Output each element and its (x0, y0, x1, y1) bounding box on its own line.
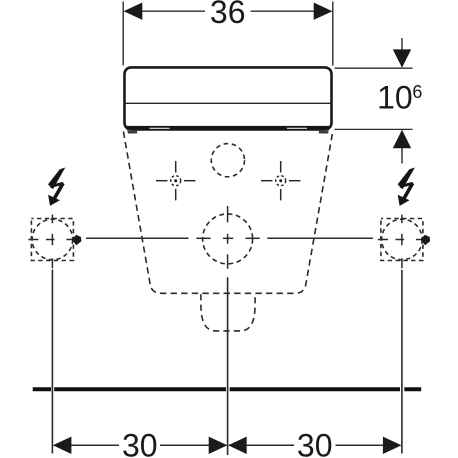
actuator plate right foot tab (319, 131, 329, 134)
horizontal centerline left long segment (86, 237, 189, 239)
horizontal centerline right long segment (267, 237, 373, 239)
dimension 30: center left-pointing arrowhead (228, 437, 247, 454)
small dashed circle (water supply) (211, 144, 244, 177)
dimension 30: center right-pointing arrowhead (209, 437, 228, 454)
svg-text:36: 36 (210, 0, 246, 30)
WC pan dashed outline (123, 132, 332, 294)
dimension 36: right extension line (332, 2, 334, 66)
dimension 36: right arrowhead (314, 3, 333, 20)
cistern actuator plate outer body (125, 67, 332, 129)
electrical box symbol right: dark mark at right edge (421, 235, 431, 245)
fixing point crosshair right (261, 161, 300, 200)
electrical box symbol left: crosshair ticks (28, 215, 81, 269)
actuator plate band right slot (287, 128, 307, 129)
dimension 30: far left arrowhead (53, 437, 72, 454)
dimension 36: left extension line (122, 2, 124, 66)
actuator plate left foot tab (128, 131, 138, 134)
fixing point crosshair left (156, 161, 195, 200)
WC outlet tube dashed outline (201, 294, 255, 331)
large circle centerline ticks (196, 206, 259, 269)
dimension 30 right: dimension line (229, 444, 294, 446)
actuator plate band left slot (150, 128, 170, 129)
right vertical extension line to floor (401, 270, 403, 454)
left vertical extension line to floor (51, 270, 53, 454)
electrical box symbol left: dashed square (31, 219, 73, 261)
actuator plate divider line (126, 102, 332, 104)
dimension 10: upward arrowhead (393, 130, 411, 148)
svg-text:10: 10 (377, 80, 413, 116)
electrical box symbol right: crosshair ticks (378, 215, 429, 269)
dimension 30 left: dimension line (70, 444, 119, 446)
dimension 10: top reference line (335, 67, 413, 69)
dimension 36: dimension line left segment (141, 10, 206, 12)
svg-text:30: 30 (297, 427, 333, 458)
svg-text:30: 30 (122, 427, 158, 458)
dimension 10: downward arrowhead (393, 49, 411, 67)
dimension 10: lower dimension line (401, 148, 403, 164)
actuator plate bottom dark band (127, 126, 329, 131)
large dashed circle (drain center) (203, 214, 253, 264)
electrical box symbol left: dark mark at right edge (72, 235, 82, 245)
lightning bolt left (power supply) (48, 168, 65, 206)
electrical box symbol right: dashed square (381, 219, 423, 261)
lightning bolt right (power supply) (398, 168, 415, 206)
electrical box symbol left: dashed circle (32, 219, 73, 260)
dimension 36: dimension line right segment (251, 10, 316, 12)
dimension 36: left arrowhead (124, 3, 143, 20)
dimension 10: upper dimension line (401, 38, 403, 51)
electrical box symbol right: dashed circle (382, 219, 423, 260)
dimension 10: bottom reference line (335, 128, 413, 130)
svg-text:6: 6 (412, 82, 422, 102)
center vertical line lower solid run (227, 277, 229, 455)
dimension 30: far right arrowhead (383, 437, 402, 454)
floor line segments (33, 387, 422, 391)
